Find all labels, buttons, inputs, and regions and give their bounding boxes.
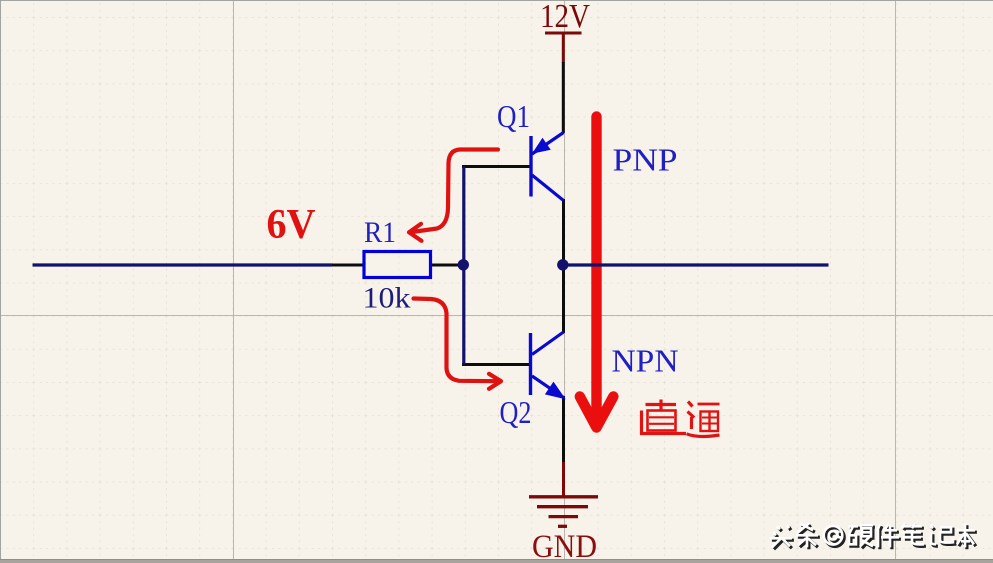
svg-text:R1: R1	[364, 216, 396, 249]
svg-text:NPN: NPN	[612, 343, 679, 379]
svg-text:GND: GND	[532, 529, 597, 563]
svg-text:Q2: Q2	[500, 394, 532, 430]
svg-text:Q1: Q1	[497, 98, 530, 134]
svg-text:12V: 12V	[540, 0, 590, 35]
svg-text:6V: 6V	[267, 202, 316, 248]
svg-text:PNP: PNP	[613, 142, 678, 178]
svg-text:10k: 10k	[363, 282, 411, 315]
